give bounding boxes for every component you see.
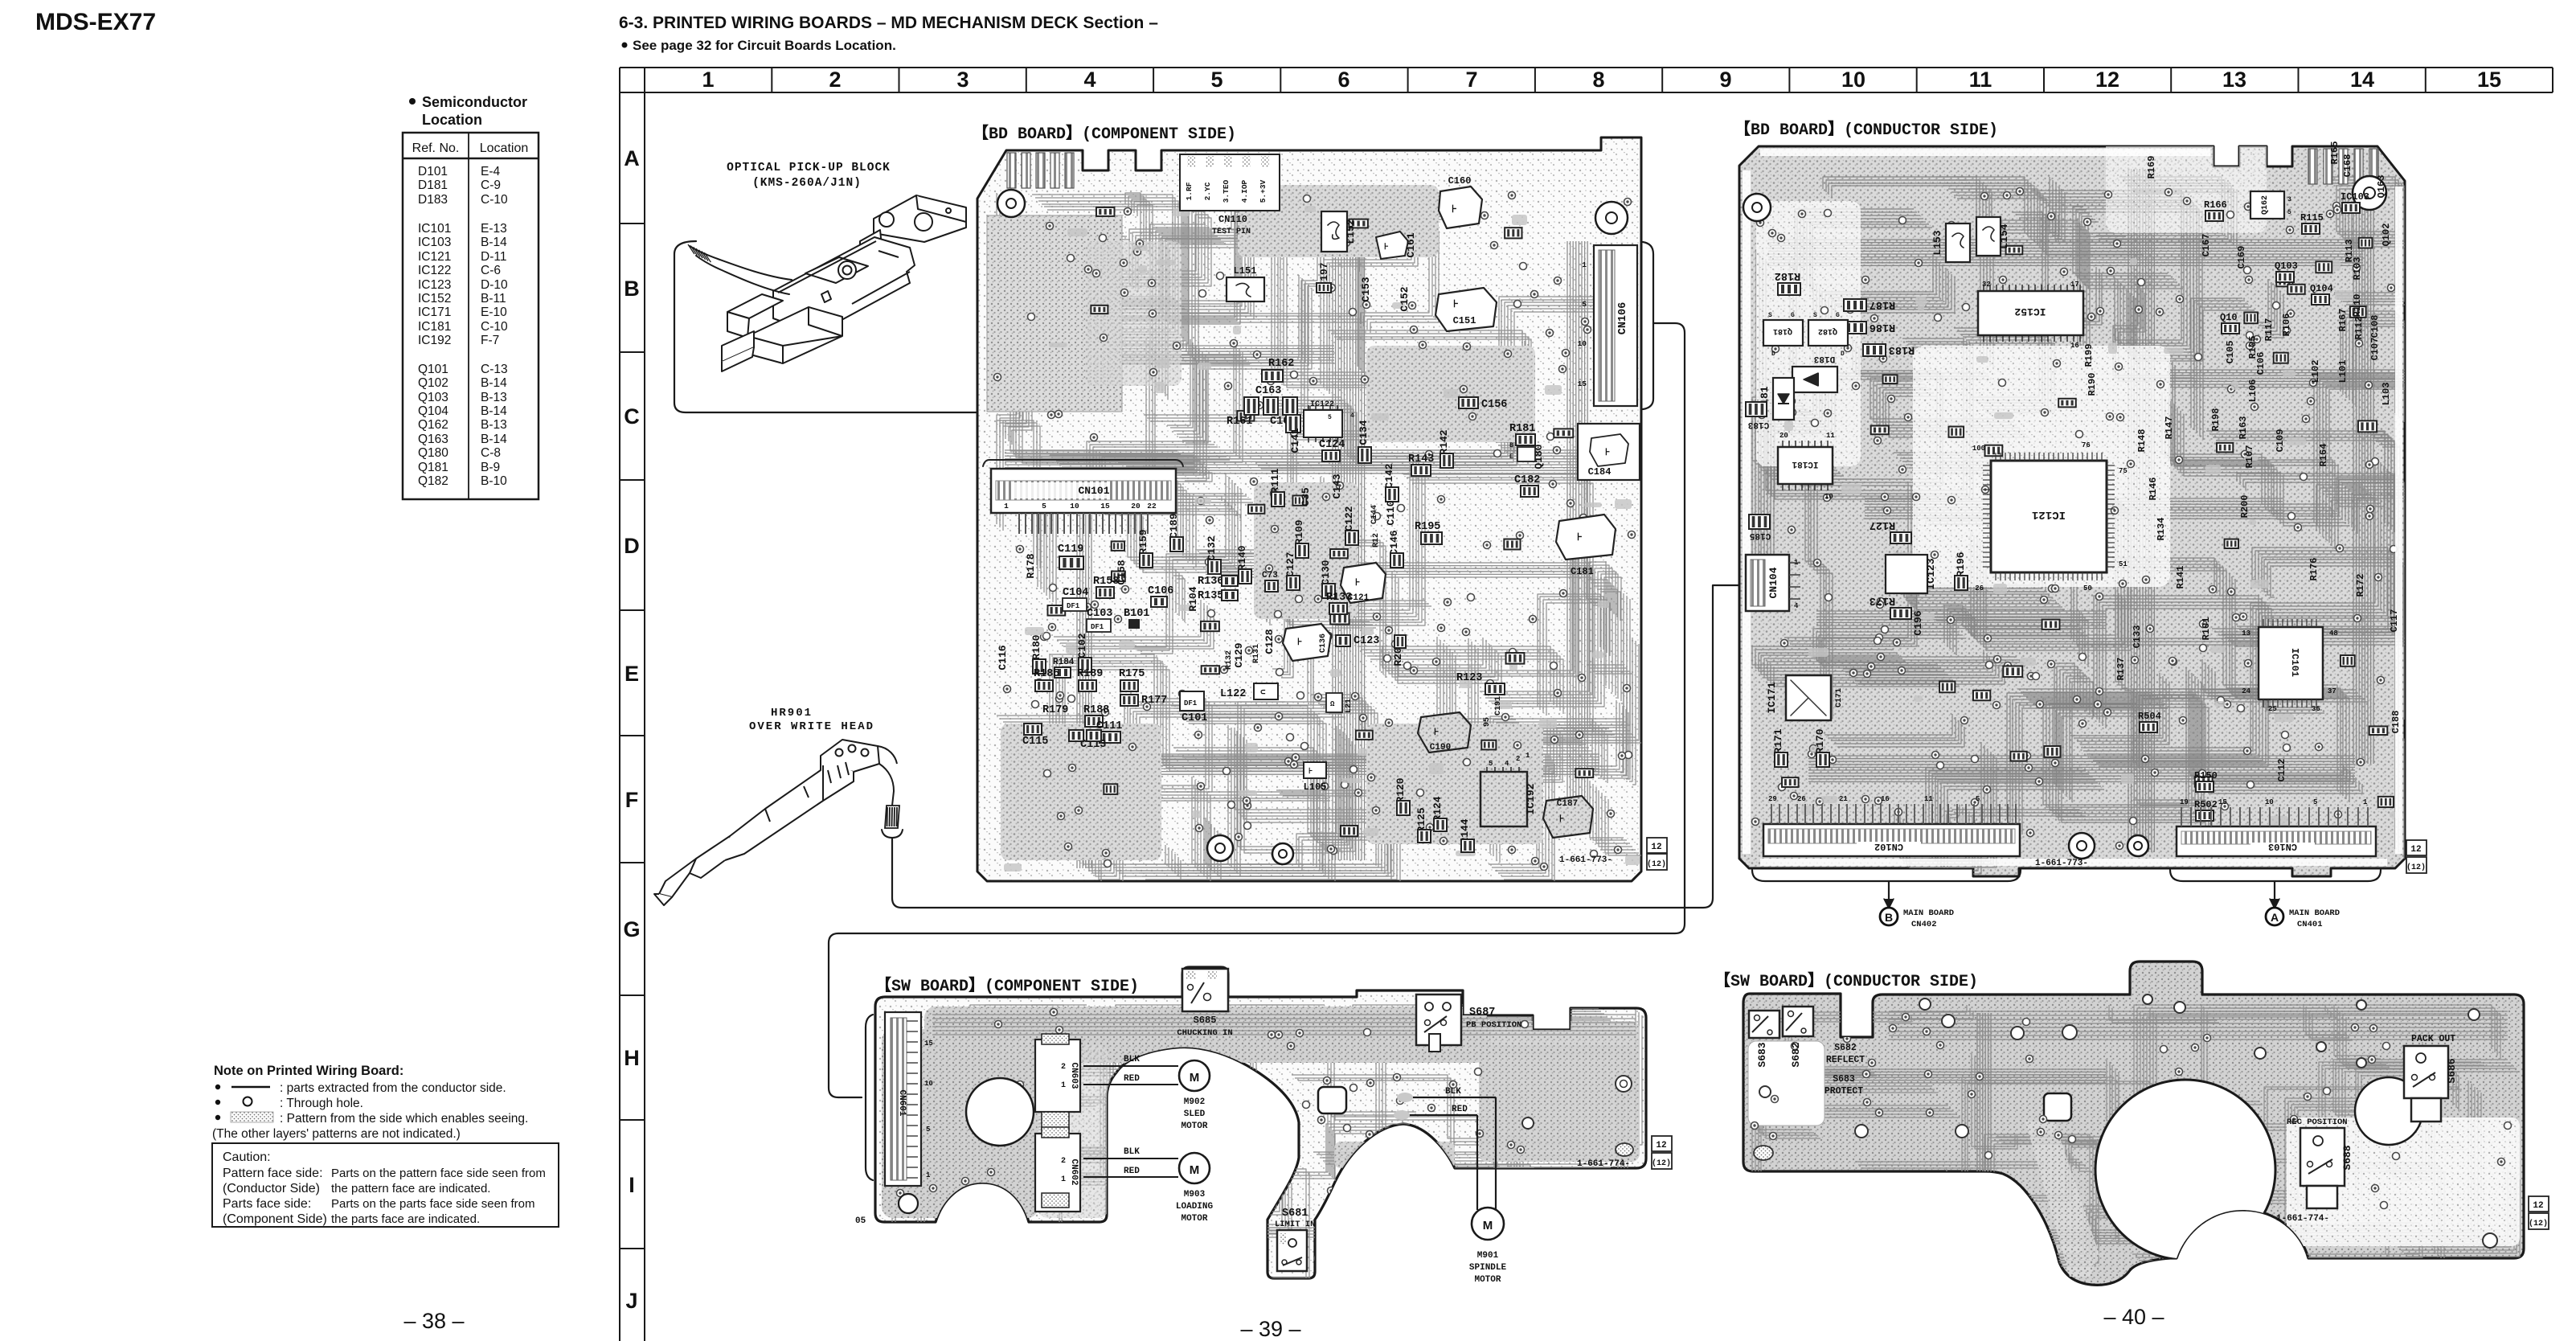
svg-text:C-8: C-8 <box>481 446 501 460</box>
svg-text:C171: C171 <box>1835 688 1844 707</box>
svg-text:B-14: B-14 <box>481 433 507 446</box>
see page note <box>622 38 896 53</box>
svg-text:C151: C151 <box>1453 315 1476 326</box>
svg-text:5: 5 <box>2313 798 2317 806</box>
svg-text:: Pattern from the side which: : Pattern from the side which enables se… <box>280 1112 528 1126</box>
svg-text:C153: C153 <box>1360 277 1372 301</box>
svg-text:Note on Printed Wiring Board:: Note on Printed Wiring Board: <box>214 1064 403 1078</box>
svg-text:C183: C183 <box>1747 420 1769 429</box>
svg-text:19: 19 <box>2180 798 2189 806</box>
svg-text:05: 05 <box>855 1216 866 1226</box>
conductor side component labels <box>2083 141 2402 782</box>
svg-text:(12): (12) <box>2529 1219 2548 1228</box>
svg-text:M: M <box>1190 1071 1200 1085</box>
svg-text:3: 3 <box>2287 196 2291 203</box>
svg-text:C181: C181 <box>1571 566 1594 577</box>
svg-text:Location: Location <box>422 112 482 128</box>
BD cond: mount hole top-right <box>2353 176 2386 210</box>
capacitor C160 <box>1439 187 1482 228</box>
IC IC181 <box>1778 447 1833 484</box>
svg-text:PB POSITION: PB POSITION <box>1466 1020 1521 1030</box>
svg-text:3: 3 <box>956 68 969 92</box>
svg-text:C103: C103 <box>1087 608 1112 620</box>
svg-text:Ref. No.: Ref. No. <box>412 141 460 155</box>
svg-text:37: 37 <box>2328 687 2336 695</box>
BD component side vias <box>994 192 1636 871</box>
svg-text:C184: C184 <box>1588 466 1612 478</box>
svg-text:26: 26 <box>1975 584 1984 593</box>
SW cond big hole <box>2095 1080 2275 1260</box>
svg-text:S687: S687 <box>1469 1007 1495 1019</box>
connector CN104 <box>1746 555 1789 611</box>
svg-text:C: C <box>624 404 640 429</box>
svg-text:S683: S683 <box>1756 1042 1768 1067</box>
svg-text:4.IOP: 4.IOP <box>1240 179 1249 203</box>
switch S685 chucking in <box>1182 969 1228 1011</box>
svg-text:IC181: IC181 <box>1792 459 1818 469</box>
svg-text:M902: M902 <box>1184 1097 1205 1107</box>
svg-text:3.TEO: 3.TEO <box>1222 179 1231 203</box>
svg-text:5: 5 <box>1489 760 1493 768</box>
capacitor C183 <box>1746 402 1767 416</box>
svg-text:16: 16 <box>1881 795 1890 803</box>
sheet ref boxes SW cond <box>2529 1196 2549 1212</box>
svg-text:E: E <box>1509 453 1513 461</box>
svg-text:SPINDLE: SPINDLE <box>1469 1263 1507 1273</box>
svg-text:C196: C196 <box>1912 610 1924 635</box>
svg-text:C188: C188 <box>2390 711 2402 734</box>
SW cond small holes <box>1919 999 1931 1010</box>
BD conductor side vias <box>1752 188 2398 852</box>
svg-text:C133: C133 <box>2132 625 2143 649</box>
svg-text:R173: R173 <box>1870 594 1895 606</box>
svg-text:C73: C73 <box>1262 571 1278 580</box>
capacitor C190 <box>1418 712 1471 753</box>
svg-text:13: 13 <box>2222 68 2246 92</box>
svg-text:R143: R143 <box>1408 453 1434 465</box>
conductor side component labels 2 <box>2138 191 2369 821</box>
BD component side copper trace texture <box>987 185 1642 883</box>
svg-text:MOTOR: MOTOR <box>1181 1214 1207 1224</box>
svg-text:C101: C101 <box>1182 712 1207 724</box>
svg-text:L101: L101 <box>2337 360 2349 383</box>
svg-text:10: 10 <box>2265 798 2274 806</box>
svg-text:Q181: Q181 <box>1773 326 1792 335</box>
svg-text:B: B <box>624 277 640 301</box>
svg-text:12: 12 <box>1651 843 1661 852</box>
svg-text:R140: R140 <box>1236 545 1248 570</box>
svg-text:DF1: DF1 <box>1184 699 1198 707</box>
SW board (conductor side) outline <box>1743 962 2524 1285</box>
resistor R187 <box>1844 299 1866 311</box>
svg-text:D-11: D-11 <box>481 250 506 264</box>
svg-text:R178: R178 <box>1025 553 1037 578</box>
svg-text:R158: R158 <box>1093 576 1119 588</box>
svg-text:C168: C168 <box>2342 154 2353 178</box>
IC IC192 <box>1480 772 1527 826</box>
svg-text:MOTOR: MOTOR <box>1181 1122 1207 1131</box>
svg-text:C136: C136 <box>1319 634 1328 653</box>
capacitor C185 <box>1749 515 1770 529</box>
svg-text:Parts on the parts face side s: Parts on the parts face side seen from <box>331 1197 534 1211</box>
svg-text:S682: S682 <box>1790 1042 1802 1067</box>
IC IC171 <box>1786 675 1831 720</box>
SW cond vias <box>1751 1014 2512 1209</box>
svg-text:26: 26 <box>1797 795 1806 803</box>
svg-text:RED: RED <box>1124 1167 1140 1176</box>
svg-text:(KMS-260A/J1N): (KMS-260A/J1N) <box>752 177 862 190</box>
svg-text:CN106: CN106 <box>1617 302 1629 335</box>
SW cond trace band <box>1889 1011 2508 1040</box>
svg-text:M: M <box>1483 1219 1493 1232</box>
svg-text:Parts face side:: Parts face side: <box>223 1197 311 1211</box>
svg-text:S: S <box>1768 312 1772 319</box>
svg-text:R111: R111 <box>1269 468 1281 493</box>
svg-text:95: 95 <box>1483 717 1492 727</box>
capacitor C121 <box>1341 563 1386 603</box>
svg-text:R117: R117 <box>2263 318 2275 342</box>
svg-text:B-14: B-14 <box>481 236 507 249</box>
svg-text:48: 48 <box>2329 629 2338 638</box>
grid frame <box>620 68 2553 1341</box>
svg-text:(12): (12) <box>2406 863 2426 872</box>
SW cond right hole <box>2355 1077 2422 1145</box>
svg-text:Pattern face side:: Pattern face side: <box>223 1167 323 1180</box>
svg-text:C187: C187 <box>1557 799 1578 809</box>
svg-text:C122: C122 <box>1343 506 1355 531</box>
svg-text:R124: R124 <box>1431 796 1444 821</box>
motor M901 spindle wires <box>1411 1097 1496 1098</box>
BD comp: bottom mount holes <box>1207 835 1233 861</box>
svg-text:R109: R109 <box>1293 519 1305 544</box>
switch S687 pb position <box>1416 994 1461 1045</box>
SW cond extra rivers <box>1889 1230 2500 1244</box>
BD conductor side small parts <box>1782 238 2394 807</box>
svg-text:Q163: Q163 <box>418 433 448 446</box>
svg-text:S: S <box>1813 312 1817 319</box>
svg-text:R196: R196 <box>1955 552 1967 576</box>
svg-text:R133: R133 <box>1326 592 1352 604</box>
transistor Q181 <box>1763 320 1803 346</box>
bracket under CN102 <box>1752 870 2021 881</box>
SW comp big hole <box>966 1078 1034 1146</box>
svg-text:C129: C129 <box>1233 642 1245 667</box>
svg-text:MAIN BOARD: MAIN BOARD <box>1903 908 1954 918</box>
connector CN103 <box>2177 826 2376 856</box>
svg-text:C161: C161 <box>1405 232 1417 257</box>
wire: HR901 to CN104 (BD conductor side) <box>892 585 1746 908</box>
svg-text:R175: R175 <box>1119 668 1145 680</box>
capacitor C136 <box>1283 624 1331 661</box>
svg-text:1-661-774-: 1-661-774- <box>1577 1159 1630 1169</box>
svg-text:5: 5 <box>1328 414 1332 421</box>
svg-text:IC152: IC152 <box>418 292 451 306</box>
svg-text:11: 11 <box>1924 795 1933 803</box>
svg-text:17: 17 <box>2070 281 2079 289</box>
svg-text:10: 10 <box>1578 339 1587 348</box>
svg-text:D: D <box>624 534 640 558</box>
BD board (conductor side) outline <box>1739 146 2405 876</box>
svg-text:IC171: IC171 <box>1766 682 1778 713</box>
IC IC152 <box>1978 291 2083 335</box>
sheet ref boxes BD comp <box>1647 838 1667 853</box>
svg-text:IC103: IC103 <box>418 236 451 249</box>
svg-text:: parts extracted from the con: : parts extracted from the conductor sid… <box>280 1081 506 1095</box>
svg-text:(12): (12) <box>1652 1159 1671 1168</box>
svg-text:MDS-EX77: MDS-EX77 <box>35 9 156 35</box>
svg-text:– 39 –: – 39 – <box>1240 1317 1300 1341</box>
svg-text:R107: R107 <box>2244 445 2255 469</box>
svg-text:⊦: ⊦ <box>1384 243 1389 252</box>
svg-text:CN102: CN102 <box>1874 841 1903 852</box>
svg-text:B-9: B-9 <box>481 461 500 474</box>
svg-text:R141: R141 <box>2175 566 2186 589</box>
svg-text:R185: R185 <box>1034 668 1059 680</box>
svg-text:Parts on the pattern face side: Parts on the pattern face side seen from <box>331 1167 546 1180</box>
svg-text:R134: R134 <box>2156 518 2167 541</box>
motor M903 loading <box>1083 1158 1178 1159</box>
svg-text:Q10: Q10 <box>2220 312 2238 323</box>
svg-text:D183: D183 <box>418 193 448 207</box>
transistor Q162 <box>2250 191 2284 219</box>
HR901 wire bracket <box>882 830 903 838</box>
svg-text:S681: S681 <box>1282 1208 1308 1220</box>
svg-text:12: 12 <box>2533 1201 2543 1211</box>
svg-text:R190: R190 <box>2087 373 2098 396</box>
caution box <box>212 1143 559 1227</box>
svg-text:IC101: IC101 <box>418 222 451 236</box>
svg-text:R169: R169 <box>2146 156 2157 179</box>
BD conductor side copper trace texture <box>1752 137 2508 874</box>
svg-text:C35: C35 <box>1300 487 1312 506</box>
svg-text:E-10: E-10 <box>481 306 507 319</box>
svg-text:R165: R165 <box>2329 141 2341 165</box>
svg-text:8: 8 <box>1592 68 1604 92</box>
svg-text:M: M <box>1190 1163 1200 1177</box>
svg-text:C169: C169 <box>2236 246 2247 269</box>
svg-text:C107: C107 <box>2369 338 2381 361</box>
svg-text:R166: R166 <box>2204 199 2227 211</box>
svg-text:R112: R112 <box>2353 317 2365 340</box>
connector CN106 <box>1594 245 1637 406</box>
bracket at CN106 <box>1643 242 1653 409</box>
svg-text:【BD BOARD】(CONDUCTOR SIDE): 【BD BOARD】(CONDUCTOR SIDE) <box>1734 120 1998 140</box>
svg-text:⊦: ⊦ <box>1577 531 1583 543</box>
svg-text:C130: C130 <box>1320 560 1332 584</box>
svg-text:LOADING: LOADING <box>1176 1202 1214 1212</box>
svg-text:CN103: CN103 <box>2268 841 2297 852</box>
svg-text:BLK: BLK <box>1445 1087 1461 1097</box>
svg-text:Q182: Q182 <box>418 474 448 488</box>
svg-text:G: G <box>623 917 640 941</box>
svg-text:10: 10 <box>924 1080 933 1088</box>
svg-text:100: 100 <box>1972 445 1985 453</box>
callout A main board CN401 <box>2274 881 2275 904</box>
svg-text:Q103: Q103 <box>2275 260 2298 272</box>
svg-text:CN601: CN601 <box>897 1089 907 1116</box>
svg-text:(12): (12) <box>1647 859 1666 869</box>
svg-text:R199: R199 <box>2083 344 2095 367</box>
coil L154 <box>1976 217 2001 256</box>
svg-text:PROTECT: PROTECT <box>1824 1086 1863 1097</box>
svg-text:M901: M901 <box>1477 1251 1499 1261</box>
svg-text:⊂: ⊂ <box>1260 688 1266 698</box>
svg-text:S688: S688 <box>2341 1145 2353 1170</box>
svg-text:BLK: BLK <box>1124 1055 1140 1064</box>
capacitor C101 <box>1180 691 1204 711</box>
svg-text:R146: R146 <box>2148 478 2159 501</box>
svg-text:C108: C108 <box>2369 315 2381 338</box>
svg-text:Q162: Q162 <box>418 418 448 432</box>
svg-text:1-661-773-: 1-661-773- <box>2035 859 2088 868</box>
svg-text:R183: R183 <box>1889 343 1915 355</box>
BD component side pads <box>1004 206 1640 871</box>
resistor R186 <box>1844 322 1866 334</box>
svg-text:B-13: B-13 <box>481 418 507 432</box>
svg-text:IC103: IC103 <box>2341 191 2369 203</box>
trace rivers BD comp <box>1333 185 1365 860</box>
svg-text:5.+3V: 5.+3V <box>1259 179 1268 203</box>
svg-text:4: 4 <box>1083 68 1096 92</box>
svg-text:24: 24 <box>2242 687 2250 695</box>
svg-text:16: 16 <box>2070 342 2079 350</box>
connector CN102 <box>1763 824 2020 856</box>
svg-text:R167: R167 <box>2337 309 2349 332</box>
svg-text:R189: R189 <box>1077 668 1103 680</box>
svg-text:⊦: ⊦ <box>1297 637 1302 648</box>
svg-text:R135: R135 <box>1198 590 1223 602</box>
capacitor C123 <box>1336 635 1350 646</box>
svg-text:R103: R103 <box>2352 257 2363 281</box>
svg-text:B-14: B-14 <box>481 376 507 390</box>
svg-text:D: D <box>1771 351 1775 358</box>
svg-text:【BD BOARD】(COMPONENT SIDE): 【BD BOARD】(COMPONENT SIDE) <box>973 124 1236 144</box>
BD cond: edge finger pads <box>2308 149 2378 184</box>
svg-text:C-10: C-10 <box>481 320 508 334</box>
svg-text:6: 6 <box>1337 68 1349 92</box>
svg-text:Q180: Q180 <box>418 446 448 460</box>
svg-text:R186: R186 <box>1870 321 1895 333</box>
svg-text:Q103: Q103 <box>418 391 448 404</box>
grid row letters <box>623 146 640 1313</box>
IC IC121 <box>1991 461 2107 572</box>
svg-text:D: D <box>1841 351 1845 358</box>
svg-text:【SW BOARD】(CONDUCTOR SIDE): 【SW BOARD】(CONDUCTOR SIDE) <box>1714 971 1978 991</box>
svg-text:R198: R198 <box>2210 408 2222 432</box>
svg-text:C106: C106 <box>1148 585 1173 597</box>
svg-text:51: 51 <box>2119 560 2128 568</box>
svg-text:⊦: ⊦ <box>1308 767 1313 777</box>
SW cond square hole <box>2044 1093 2071 1121</box>
svg-text:F: F <box>625 788 639 812</box>
svg-text:G: G <box>1791 312 1795 319</box>
svg-text:E-4: E-4 <box>481 165 501 178</box>
coil L153 <box>1946 223 1970 262</box>
svg-text:2: 2 <box>1061 1063 1066 1072</box>
capacitor C161 <box>1376 232 1408 259</box>
svg-text:C102: C102 <box>1076 633 1088 658</box>
svg-text:1: 1 <box>1061 1175 1066 1184</box>
resistor R177 <box>1120 695 1138 706</box>
svg-text:HR901: HR901 <box>771 707 813 720</box>
svg-text:【SW BOARD】(COMPONENT SIDE): 【SW BOARD】(COMPONENT SIDE) <box>875 976 1139 996</box>
svg-text:E: E <box>625 662 639 686</box>
svg-text:R187: R187 <box>1870 298 1895 310</box>
svg-text:R184: R184 <box>1053 658 1075 667</box>
svg-text:C167: C167 <box>2201 234 2212 257</box>
svg-text:L151: L151 <box>1234 265 1257 277</box>
svg-text:B101: B101 <box>1124 608 1149 620</box>
svg-text:F-7: F-7 <box>481 334 499 347</box>
svg-text:15: 15 <box>2218 798 2227 806</box>
BD conductor side pads <box>1767 258 2403 827</box>
HR901 flex tail <box>885 806 899 828</box>
resistor R183 <box>1863 344 1886 356</box>
svg-text:11: 11 <box>1969 68 1992 92</box>
svg-text:L152: L152 <box>1345 219 1357 244</box>
BD component side ground plane regions <box>987 215 1122 412</box>
svg-text:Q104: Q104 <box>418 404 448 418</box>
svg-text:R182: R182 <box>1775 269 1800 281</box>
svg-text:– 38 –: – 38 – <box>403 1309 464 1333</box>
note on printed wiring board <box>212 1064 528 1141</box>
connector CN110 test pin <box>1180 154 1280 211</box>
svg-text:S686: S686 <box>2446 1058 2458 1083</box>
svg-text:OVER WRITE HEAD: OVER WRITE HEAD <box>749 720 874 733</box>
svg-text:C182: C182 <box>1514 474 1540 486</box>
BD cond: bottom mount holes <box>2069 833 2095 859</box>
svg-text:C152: C152 <box>1399 286 1411 311</box>
SW board (component side) outline <box>875 967 1646 1278</box>
svg-text:LIMIT IN: LIMIT IN <box>1275 1220 1315 1229</box>
svg-text:H: H <box>624 1046 640 1070</box>
sheet ref boxes BD cond <box>2406 840 2427 855</box>
svg-text:R161: R161 <box>1227 416 1252 428</box>
svg-text:B-13: B-13 <box>481 391 507 404</box>
svg-text:C144: C144 <box>1370 505 1379 524</box>
svg-text:C110: C110 <box>1385 500 1397 525</box>
svg-text:12: 12 <box>2095 68 2119 92</box>
svg-text:B-10: B-10 <box>481 474 507 488</box>
svg-text:22: 22 <box>1147 502 1157 511</box>
svg-text:REC POSITION: REC POSITION <box>2287 1117 2348 1127</box>
svg-text:IC192: IC192 <box>418 334 451 347</box>
svg-text:R148: R148 <box>2136 429 2148 453</box>
svg-text:C104: C104 <box>1063 587 1088 599</box>
coil L105 <box>1304 762 1326 778</box>
svg-text:13: 13 <box>2242 629 2250 638</box>
SW cond white switch zone <box>1748 1041 1824 1126</box>
svg-text:C-10: C-10 <box>481 193 508 207</box>
SW comp vias <box>897 1009 1533 1266</box>
capacitor C151 <box>1435 288 1497 331</box>
svg-text:9: 9 <box>1719 68 1731 92</box>
svg-text:J: J <box>625 1289 637 1313</box>
SW comp corner hole <box>899 1194 918 1213</box>
capacitor C184 <box>1578 424 1640 480</box>
HR901 over write head drawing <box>654 740 897 905</box>
optical block flex ribbon <box>690 246 792 280</box>
bracket under CN103 <box>2170 870 2381 881</box>
svg-text:12: 12 <box>2410 845 2421 855</box>
svg-text:CN602: CN602 <box>1069 1159 1079 1185</box>
svg-text:R136: R136 <box>1198 576 1223 588</box>
SW comp copper texture <box>882 1005 1648 1294</box>
svg-text:Q181: Q181 <box>418 461 448 474</box>
svg-text:IC123: IC123 <box>1925 558 1937 589</box>
svg-text:C160: C160 <box>1448 175 1472 187</box>
svg-text:IC192: IC192 <box>1525 783 1537 814</box>
